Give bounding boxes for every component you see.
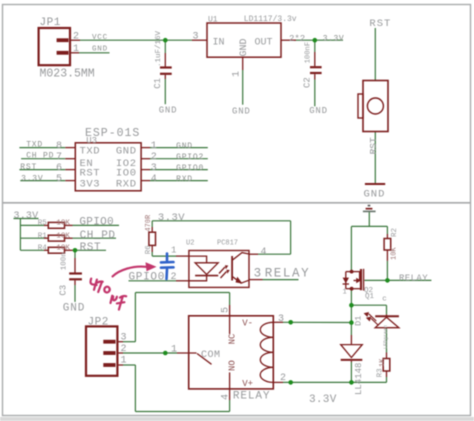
svg-text:TXD: TXD [26, 141, 43, 150]
svg-text:10K: 10K [56, 245, 70, 253]
svg-text:1: 1 [231, 71, 242, 77]
svg-text:R4: R4 [38, 245, 48, 253]
svg-text:GPIO0: GPIO0 [129, 271, 166, 283]
svg-text:10K: 10K [56, 232, 70, 240]
svg-text:R6: R6 [145, 245, 153, 255]
svg-text:10K: 10K [390, 247, 398, 260]
svg-text:3: 3 [193, 32, 199, 43]
svg-text:1K: 1K [379, 358, 387, 367]
svg-text:JP1: JP1 [40, 17, 61, 29]
svg-text:CH_PD: CH_PD [80, 230, 116, 242]
svg-text:Q1: Q1 [365, 293, 375, 301]
svg-text:C3: C3 [59, 285, 69, 296]
svg-text:RST: RST [369, 18, 391, 30]
svg-text:RXD: RXD [116, 178, 137, 190]
svg-text:V+: V+ [242, 379, 253, 389]
svg-text:3.3V: 3.3V [323, 34, 345, 43]
svg-text:100nF: 100nF [304, 42, 312, 64]
svg-text:OUT: OUT [255, 38, 273, 49]
svg-text:GND: GND [63, 303, 86, 315]
svg-text:2: 2 [73, 32, 79, 43]
svg-text:GND: GND [116, 146, 137, 158]
svg-text:1: 1 [151, 141, 157, 152]
svg-text:RELAY: RELAY [265, 266, 311, 280]
svg-text:5: 5 [221, 307, 232, 313]
svg-text:1: 1 [171, 245, 176, 255]
svg-text:U3: U3 [86, 136, 97, 146]
svg-text:GND: GND [92, 46, 108, 54]
svg-text:1: 1 [121, 355, 127, 366]
svg-text:2: 2 [121, 344, 127, 355]
svg-text:1: 1 [343, 289, 347, 297]
svg-text:470R: 470R [145, 214, 153, 232]
svg-text:V-: V- [242, 319, 253, 329]
svg-text:RELAY: RELAY [399, 274, 428, 284]
svg-text:5: 5 [56, 174, 62, 185]
svg-text:IN: IN [213, 38, 225, 49]
svg-text:2: 2 [151, 152, 157, 163]
svg-text:D1: D1 [353, 316, 363, 326]
svg-text:8: 8 [56, 141, 62, 152]
svg-text:LD1117/3.3v: LD1117/3.3v [244, 15, 297, 24]
svg-text:.1uF/16V: .1uF/16V [155, 30, 163, 67]
svg-text:R5: R5 [38, 220, 48, 228]
svg-text:3V3: 3V3 [80, 178, 101, 190]
svg-text:NC: NC [228, 333, 238, 344]
svg-text:NO: NO [228, 360, 238, 371]
svg-text:3: 3 [151, 163, 157, 174]
svg-text:COM: COM [201, 350, 221, 361]
svg-text:3.3V: 3.3V [158, 212, 185, 224]
svg-text:3.3V: 3.3V [14, 211, 39, 222]
svg-text:4: 4 [221, 394, 232, 400]
svg-text:GND: GND [159, 106, 178, 116]
svg-text:3: 3 [121, 333, 127, 344]
svg-text:R2: R2 [391, 228, 399, 237]
svg-text:R3: R3 [376, 368, 384, 378]
svg-text:GPIO0: GPIO0 [79, 216, 114, 228]
svg-text:2: 2 [280, 373, 286, 384]
svg-text:C2: C2 [302, 77, 312, 88]
svg-text:LL4148: LL4148 [354, 363, 364, 395]
svg-text:GND: GND [239, 38, 250, 56]
svg-text:3: 3 [254, 266, 262, 280]
svg-text:C1: C1 [153, 78, 163, 89]
svg-text:6: 6 [56, 163, 62, 174]
svg-text:GPIO0: GPIO0 [176, 164, 204, 173]
svg-text:100n: 100n [61, 252, 69, 270]
svg-text:RELAY: RELAY [233, 391, 271, 403]
svg-text:M023.5MM: M023.5MM [40, 68, 95, 81]
svg-text:1: 1 [171, 345, 177, 356]
svg-text:TXD: TXD [80, 146, 101, 158]
svg-text:CH_PD: CH_PD [26, 152, 54, 161]
svg-text:3: 3 [278, 314, 284, 325]
svg-text:PC817: PC817 [217, 239, 238, 247]
svg-text:RXD: RXD [176, 175, 193, 184]
svg-text:10K: 10K [56, 220, 70, 228]
svg-text:U1: U1 [208, 16, 218, 25]
svg-text:7: 7 [56, 152, 62, 163]
svg-text:4: 4 [261, 247, 267, 258]
svg-text:1: 1 [73, 44, 79, 55]
svg-text:c: c [382, 296, 387, 304]
svg-text:2*2: 2*2 [289, 34, 305, 44]
svg-text:3.3V: 3.3V [309, 394, 337, 406]
svg-text:RST: RST [368, 137, 379, 154]
svg-text:GND: GND [176, 142, 193, 151]
svg-text:GND: GND [309, 106, 328, 116]
svg-text:LEDgreen: LEDgreen [383, 325, 389, 349]
svg-text:GND: GND [232, 107, 251, 117]
svg-text:R1: R1 [38, 232, 48, 240]
svg-text:2: 2 [171, 272, 177, 283]
svg-text:JP2: JP2 [88, 317, 109, 329]
svg-text:4: 4 [151, 174, 157, 185]
svg-text:3.3V: 3.3V [21, 174, 43, 183]
svg-text:GND: GND [364, 189, 386, 201]
svg-text:RST: RST [80, 242, 102, 254]
svg-text:RST: RST [20, 163, 37, 172]
svg-text:U2: U2 [186, 239, 194, 247]
svg-text:VCC: VCC [92, 34, 108, 42]
svg-text:GPIO2: GPIO2 [176, 153, 204, 162]
